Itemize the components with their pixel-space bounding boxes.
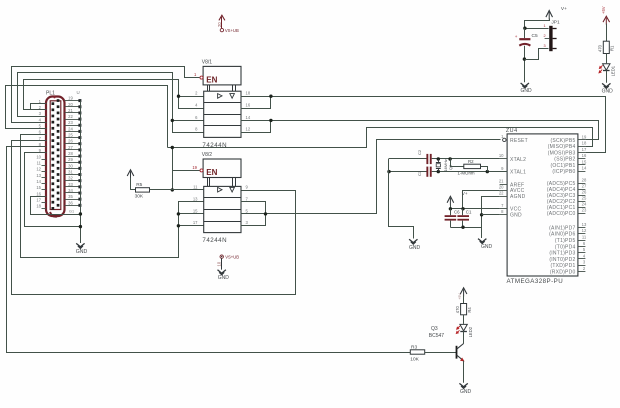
svg-text:(OC1)PB1: (OC1)PB1 bbox=[550, 163, 575, 169]
svg-text:29: 29 bbox=[68, 157, 73, 162]
wire GND row bbox=[482, 214, 500, 216]
svg-text:R4: R4 bbox=[467, 307, 472, 313]
wire R5 left bbox=[131, 178, 136, 190]
svg-text:11: 11 bbox=[582, 235, 587, 240]
svg-text:20: 20 bbox=[217, 22, 222, 27]
crystal Q2 16MHz bbox=[436, 159, 453, 172]
svg-text:26: 26 bbox=[582, 190, 587, 195]
svg-text:10: 10 bbox=[36, 154, 41, 159]
svg-text:(AIN1)PD7: (AIN1)PD7 bbox=[549, 225, 575, 231]
wire GND2 PL1 pin9 to ground bus bbox=[25, 153, 83, 229]
svg-text:35: 35 bbox=[68, 194, 73, 199]
svg-text:10: 10 bbox=[217, 261, 222, 266]
svg-text:16: 16 bbox=[246, 102, 251, 107]
svg-text:VS+UB: VS+UB bbox=[225, 255, 239, 260]
svg-text:17: 17 bbox=[193, 220, 198, 225]
supply arrow V+ top bbox=[546, 6, 567, 19]
wire MISO net horizontal to ATMEGA PB4 bbox=[168, 128, 593, 148]
svg-text:(INT0)PD2: (INT0)PD2 bbox=[549, 257, 575, 263]
PL1 right pins 19-36 with pads bbox=[65, 96, 82, 207]
wire C5 down to GND bbox=[523, 46, 526, 82]
svg-text:28: 28 bbox=[582, 178, 587, 183]
svg-text:(MISO)PB4: (MISO)PB4 bbox=[548, 144, 576, 150]
svg-text:ATMEGA328P-PU: ATMEGA328P-PU bbox=[507, 278, 564, 285]
svg-text:27: 27 bbox=[582, 184, 587, 189]
svg-text:10: 10 bbox=[499, 153, 504, 158]
svg-text:28: 28 bbox=[68, 151, 73, 156]
ATMEGA right pins bbox=[547, 134, 587, 275]
svg-text:LED1: LED1 bbox=[611, 65, 616, 76]
svg-text:19: 19 bbox=[582, 134, 587, 139]
wire L3 PL1 pin2 to V8/1 inputs 2+4 bbox=[24, 80, 204, 110]
wire R5 to V8/2 pin 11 bbox=[150, 189, 204, 191]
svg-text:BC547: BC547 bbox=[429, 333, 445, 339]
ground symbol GND at ATMEGA bbox=[478, 239, 492, 250]
wire L4 PL1 pin5 to MISO net bbox=[6, 86, 168, 148]
svg-text:GND: GND bbox=[460, 389, 472, 395]
resistor R1 470 bbox=[597, 41, 614, 53]
svg-text:(SS)PB2: (SS)PB2 bbox=[554, 157, 575, 163]
svg-text:19: 19 bbox=[192, 165, 197, 170]
resistor R4 470 bbox=[455, 304, 472, 315]
wire L1 PL1 pin4 to V8/1 EN pin 1 bbox=[12, 67, 200, 123]
svg-text:18: 18 bbox=[246, 91, 251, 96]
svg-text:13: 13 bbox=[582, 222, 587, 227]
ground symbol GND under PL1 bbox=[76, 243, 88, 255]
svg-text:(T0)PD4: (T0)PD4 bbox=[555, 244, 576, 250]
label PL1 bbox=[46, 91, 55, 97]
PL1 left pins 1-18 bbox=[36, 99, 46, 209]
svg-text:1: 1 bbox=[543, 24, 545, 28]
svg-text:32: 32 bbox=[68, 176, 73, 181]
transistor Q3 BC547 bbox=[429, 326, 464, 361]
svg-text:1-MOhm: 1-MOhm bbox=[458, 171, 475, 176]
svg-text:34: 34 bbox=[68, 188, 73, 193]
svg-text:14: 14 bbox=[582, 166, 587, 171]
svg-text:25: 25 bbox=[68, 133, 73, 138]
capacitor C5 polarized bbox=[515, 33, 538, 45]
svg-text:24: 24 bbox=[68, 126, 73, 131]
svg-text:21: 21 bbox=[499, 179, 504, 184]
svg-text:27: 27 bbox=[68, 145, 73, 150]
supply arrow V+ AVCC bbox=[447, 196, 454, 205]
svg-text:+5V: +5V bbox=[458, 293, 462, 300]
svg-text:18: 18 bbox=[36, 204, 41, 209]
wire AGND leg bbox=[480, 197, 500, 228]
svg-text:GND: GND bbox=[76, 249, 88, 255]
capacitor C1 bbox=[457, 209, 472, 227]
capacitor C6 bbox=[445, 209, 461, 227]
svg-text:16: 16 bbox=[36, 191, 41, 196]
wire V8/2 out 7+5+3 to ATMEGA RESET bbox=[241, 140, 501, 226]
svg-text:3: 3 bbox=[543, 44, 545, 48]
svg-text:EN: EN bbox=[206, 75, 217, 84]
svg-text:LED2: LED2 bbox=[468, 326, 473, 337]
svg-text:26: 26 bbox=[68, 139, 73, 144]
svg-text:470: 470 bbox=[597, 44, 602, 52]
wire +5V to R1 bbox=[606, 24, 608, 42]
svg-text:U: U bbox=[77, 90, 80, 95]
svg-text:(SCK)PB5: (SCK)PB5 bbox=[550, 138, 575, 144]
label V+ at AVCC bbox=[462, 191, 468, 196]
wire pin1-pin2 jog bbox=[31, 104, 47, 110]
resistor R2 1-MOhm bbox=[451, 159, 488, 176]
wire B1 PL1 pin6 to V8/2 inputs 13+15+17 bbox=[21, 135, 204, 258]
svg-text:20: 20 bbox=[499, 185, 504, 190]
buffer IC V8/2 74244N bbox=[193, 152, 249, 244]
wire PL1 pin16 to ground bbox=[31, 197, 83, 216]
wire EN19 and pin11 branch bbox=[171, 146, 200, 192]
svg-text:30K: 30K bbox=[135, 194, 144, 200]
svg-text:18: 18 bbox=[582, 141, 587, 146]
svg-text:ZU4: ZU4 bbox=[506, 128, 518, 134]
svg-text:12: 12 bbox=[582, 228, 587, 233]
wire V8/1 out 18+16 to ATMEGA PB3 MOSI bbox=[241, 95, 606, 153]
wire R4 to LED2 bbox=[463, 315, 465, 324]
label U bbox=[77, 90, 80, 95]
capacitor C2 bbox=[417, 149, 432, 164]
wire emitter to GND bbox=[463, 361, 465, 383]
svg-text:(MOSI)PB3: (MOSI)PB3 bbox=[548, 150, 576, 156]
svg-text:XTAL1: XTAL1 bbox=[510, 170, 526, 176]
svg-text:14: 14 bbox=[36, 179, 41, 184]
svg-text:(ADC0)PC0: (ADC0)PC0 bbox=[547, 211, 576, 217]
connector PL1 inner pins bbox=[52, 99, 60, 210]
svg-text:V8/1: V8/1 bbox=[202, 59, 213, 65]
resistor R5 bbox=[135, 182, 150, 199]
svg-text:19: 19 bbox=[68, 96, 73, 101]
svg-text:VS+UB: VS+UB bbox=[225, 28, 239, 33]
ground symbol GND under C5 bbox=[520, 83, 532, 94]
svg-text:74244N: 74244N bbox=[202, 237, 227, 244]
svg-text:20: 20 bbox=[68, 102, 73, 107]
svg-text:15: 15 bbox=[36, 185, 41, 190]
svg-text:25: 25 bbox=[582, 196, 587, 201]
wire C2 C3 ground leg bbox=[389, 159, 414, 239]
svg-text:GND: GND bbox=[409, 245, 421, 251]
wire B2 PL1 pin7 to V8/2 output 9 bbox=[12, 141, 296, 295]
wire C5 to JP1 pin3 bbox=[525, 49, 549, 60]
power pin V8 pin 10 to GND bbox=[217, 255, 240, 281]
svg-text:R5: R5 bbox=[136, 182, 142, 188]
svg-text:(ICP)PB0: (ICP)PB0 bbox=[552, 169, 575, 175]
svg-text:XTAL2: XTAL2 bbox=[510, 157, 526, 163]
wire PL1 ground bus bbox=[80, 101, 82, 243]
wire supply to R4 bbox=[463, 296, 465, 304]
wire LED1 to GND bbox=[606, 71, 608, 83]
svg-text:GND: GND bbox=[481, 244, 493, 250]
wire V8/1 out 14+12 to ATMEGA PB5 SCK bbox=[241, 119, 599, 140]
svg-text:13: 13 bbox=[193, 196, 198, 201]
ATMEGA left pins bbox=[499, 134, 528, 219]
svg-text:C3: C3 bbox=[417, 170, 422, 176]
svg-text:10K: 10K bbox=[410, 356, 419, 362]
svg-text:C6: C6 bbox=[454, 209, 460, 214]
wire LED2 to collector bbox=[463, 331, 465, 343]
svg-text:V8/2: V8/2 bbox=[202, 152, 213, 158]
svg-text:22: 22 bbox=[499, 190, 504, 195]
svg-text:V+: V+ bbox=[561, 6, 567, 12]
supply arrow for R5 bbox=[127, 170, 134, 179]
svg-text:74244N: 74244N bbox=[202, 142, 227, 149]
wire B3 PL1 pin8 to R3 bbox=[7, 147, 411, 353]
svg-text:15: 15 bbox=[582, 159, 587, 164]
wire L2 PL1 pin3 to V8/1 inputs 6+8 bbox=[18, 73, 204, 133]
svg-text:C2: C2 bbox=[417, 149, 422, 155]
svg-text:14: 14 bbox=[246, 115, 251, 120]
capacitor C3 bbox=[417, 167, 432, 177]
svg-text:GND: GND bbox=[510, 213, 522, 219]
supply +5V bbox=[601, 6, 610, 24]
svg-text:2: 2 bbox=[543, 34, 545, 38]
microcontroller ZU4 ATMEGA328P-PU box bbox=[506, 128, 578, 285]
svg-text:13: 13 bbox=[36, 173, 41, 178]
svg-text:R3: R3 bbox=[411, 344, 417, 350]
svg-text:33: 33 bbox=[68, 182, 73, 187]
label G1 bbox=[69, 210, 74, 214]
svg-text:GND: GND bbox=[218, 275, 230, 281]
svg-text:23: 23 bbox=[582, 208, 587, 213]
svg-text:22: 22 bbox=[68, 114, 73, 119]
svg-text:Q3: Q3 bbox=[431, 326, 438, 332]
buffer IC V8/1 74244N bbox=[195, 59, 251, 148]
LED LED1 bbox=[599, 64, 616, 77]
ground symbol GND under LED1 bbox=[602, 83, 614, 94]
svg-text:(AIN0)PD6: (AIN0)PD6 bbox=[549, 232, 575, 238]
wire R1 to LED1 bbox=[606, 54, 608, 64]
svg-text:RESET: RESET bbox=[510, 138, 528, 144]
LED LED2 bbox=[456, 324, 473, 337]
svg-text:EN: EN bbox=[206, 168, 217, 177]
connector PL1 shell bbox=[46, 96, 65, 216]
svg-text:11: 11 bbox=[193, 184, 198, 189]
svg-text:(INT1)PD3: (INT1)PD3 bbox=[549, 251, 575, 257]
svg-text:C5: C5 bbox=[532, 33, 538, 39]
svg-text:(TXD)PD1: (TXD)PD1 bbox=[550, 263, 575, 269]
ground symbol GND under Q3 bbox=[459, 383, 471, 394]
ground symbol GND crystal bbox=[409, 239, 421, 251]
svg-text:GND: GND bbox=[520, 88, 532, 94]
svg-text:R1: R1 bbox=[609, 45, 614, 51]
svg-text:R2: R2 bbox=[468, 159, 474, 164]
svg-text:PL1: PL1 bbox=[46, 91, 55, 97]
svg-text:+: + bbox=[515, 34, 518, 39]
svg-text:12: 12 bbox=[36, 167, 41, 172]
svg-text:C1: C1 bbox=[466, 209, 472, 214]
svg-text:+5V: +5V bbox=[601, 6, 606, 14]
svg-text:JP1: JP1 bbox=[551, 20, 560, 26]
svg-text:12: 12 bbox=[246, 127, 251, 132]
wire AVCC to V+ rail bbox=[463, 191, 500, 209]
resistor R3 10K bbox=[410, 344, 424, 362]
svg-text:470: 470 bbox=[455, 306, 460, 314]
svg-text:15: 15 bbox=[193, 208, 198, 213]
svg-text:(RXD)PD0: (RXD)PD0 bbox=[550, 270, 576, 276]
svg-text:V+: V+ bbox=[462, 191, 468, 196]
svg-text:21: 21 bbox=[68, 108, 73, 113]
pin header JP1 bbox=[543, 20, 560, 52]
svg-text:GND: GND bbox=[602, 89, 614, 95]
svg-text:31: 31 bbox=[68, 170, 73, 175]
svg-text:AGND: AGND bbox=[510, 194, 526, 200]
svg-text:(T1)PD5: (T1)PD5 bbox=[555, 238, 576, 244]
wire XTAL1 line bbox=[387, 170, 507, 173]
svg-text:11: 11 bbox=[37, 161, 42, 166]
svg-text:30: 30 bbox=[68, 163, 73, 168]
svg-text:23: 23 bbox=[68, 120, 73, 125]
wire cap ground rail bbox=[450, 226, 481, 239]
pin number 19 of EN V8/2 bbox=[192, 165, 197, 170]
svg-text:16: 16 bbox=[582, 153, 587, 158]
svg-text:24: 24 bbox=[582, 202, 587, 207]
svg-text:17: 17 bbox=[582, 147, 587, 152]
wire V+ to JP1 and C5 bbox=[523, 19, 549, 39]
wire VCC row bbox=[449, 205, 500, 211]
supply arrow above R4 bbox=[458, 288, 467, 300]
pin number 1 of EN V8/1 bbox=[194, 72, 197, 77]
supply VS+UB top for V8 pin 20 bbox=[217, 15, 239, 33]
wire R3 to base bbox=[425, 352, 457, 354]
svg-text:36: 36 bbox=[68, 200, 73, 205]
wire XTAL2 line bbox=[389, 157, 500, 160]
svg-text:G1: G1 bbox=[69, 210, 74, 214]
svg-text:17: 17 bbox=[36, 197, 41, 202]
